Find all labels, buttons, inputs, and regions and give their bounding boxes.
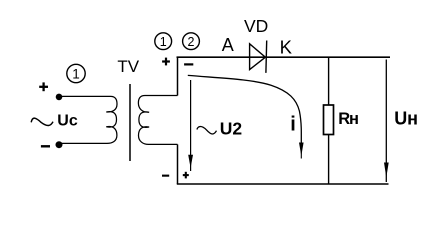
svg-text:Uc: Uc <box>57 112 78 129</box>
node ① above secondary (circled 1) <box>155 33 172 50</box>
− polarity secondary bottom (half-cycle 1) <box>162 175 169 177</box>
sine symbol ~ before U2 <box>197 126 217 134</box>
Uн voltage arrow (down) <box>384 60 389 183</box>
+ polarity secondary top (half-cycle 1) <box>162 58 170 66</box>
svg-text:A: A <box>222 35 234 55</box>
+ polarity primary top <box>39 82 48 91</box>
svg-text:Uн: Uн <box>394 108 418 128</box>
wire secondary top terminal up to rail <box>177 57 179 96</box>
svg-text:1: 1 <box>72 67 80 82</box>
source sine symbol ~ <box>31 118 53 125</box>
svg-text:i: i <box>290 114 296 136</box>
svg-text:TV: TV <box>117 57 139 76</box>
node ① left (circled 1) <box>67 64 85 82</box>
top rail wire <box>177 56 391 58</box>
svg-text:VD: VD <box>244 16 268 36</box>
− polarity primary bottom <box>41 145 50 147</box>
node ② above secondary (circled 2) <box>183 33 200 50</box>
wire resistor bottom to bottom rail <box>328 135 330 185</box>
+ polarity secondary bottom (half-cycle 2) <box>183 172 189 179</box>
U2 voltage arrow (down) <box>188 80 193 171</box>
transformer TV primary winding with leads <box>59 96 117 143</box>
diode VD triangle (anode) <box>250 44 266 70</box>
svg-text:н: н <box>349 110 359 128</box>
svg-text:2: 2 <box>188 35 195 49</box>
svg-text:K: K <box>280 36 293 57</box>
svg-text:U2: U2 <box>220 119 243 139</box>
node dot primary bottom terminal <box>56 141 63 148</box>
wire rail to resistor top <box>328 57 330 105</box>
node dot primary top terminal <box>56 94 63 101</box>
resistor Rн body <box>324 105 334 135</box>
diode VD cathode bar <box>265 41 268 73</box>
current i curved arrow <box>188 75 304 158</box>
− polarity secondary top (half-cycle 2) <box>184 63 193 65</box>
svg-text:1: 1 <box>160 35 167 49</box>
transformer core <box>129 84 131 161</box>
transformer TV secondary winding with leads <box>138 96 177 145</box>
bottom rail wire <box>177 183 389 185</box>
wire secondary bottom terminal down to bottom rail <box>177 144 179 184</box>
